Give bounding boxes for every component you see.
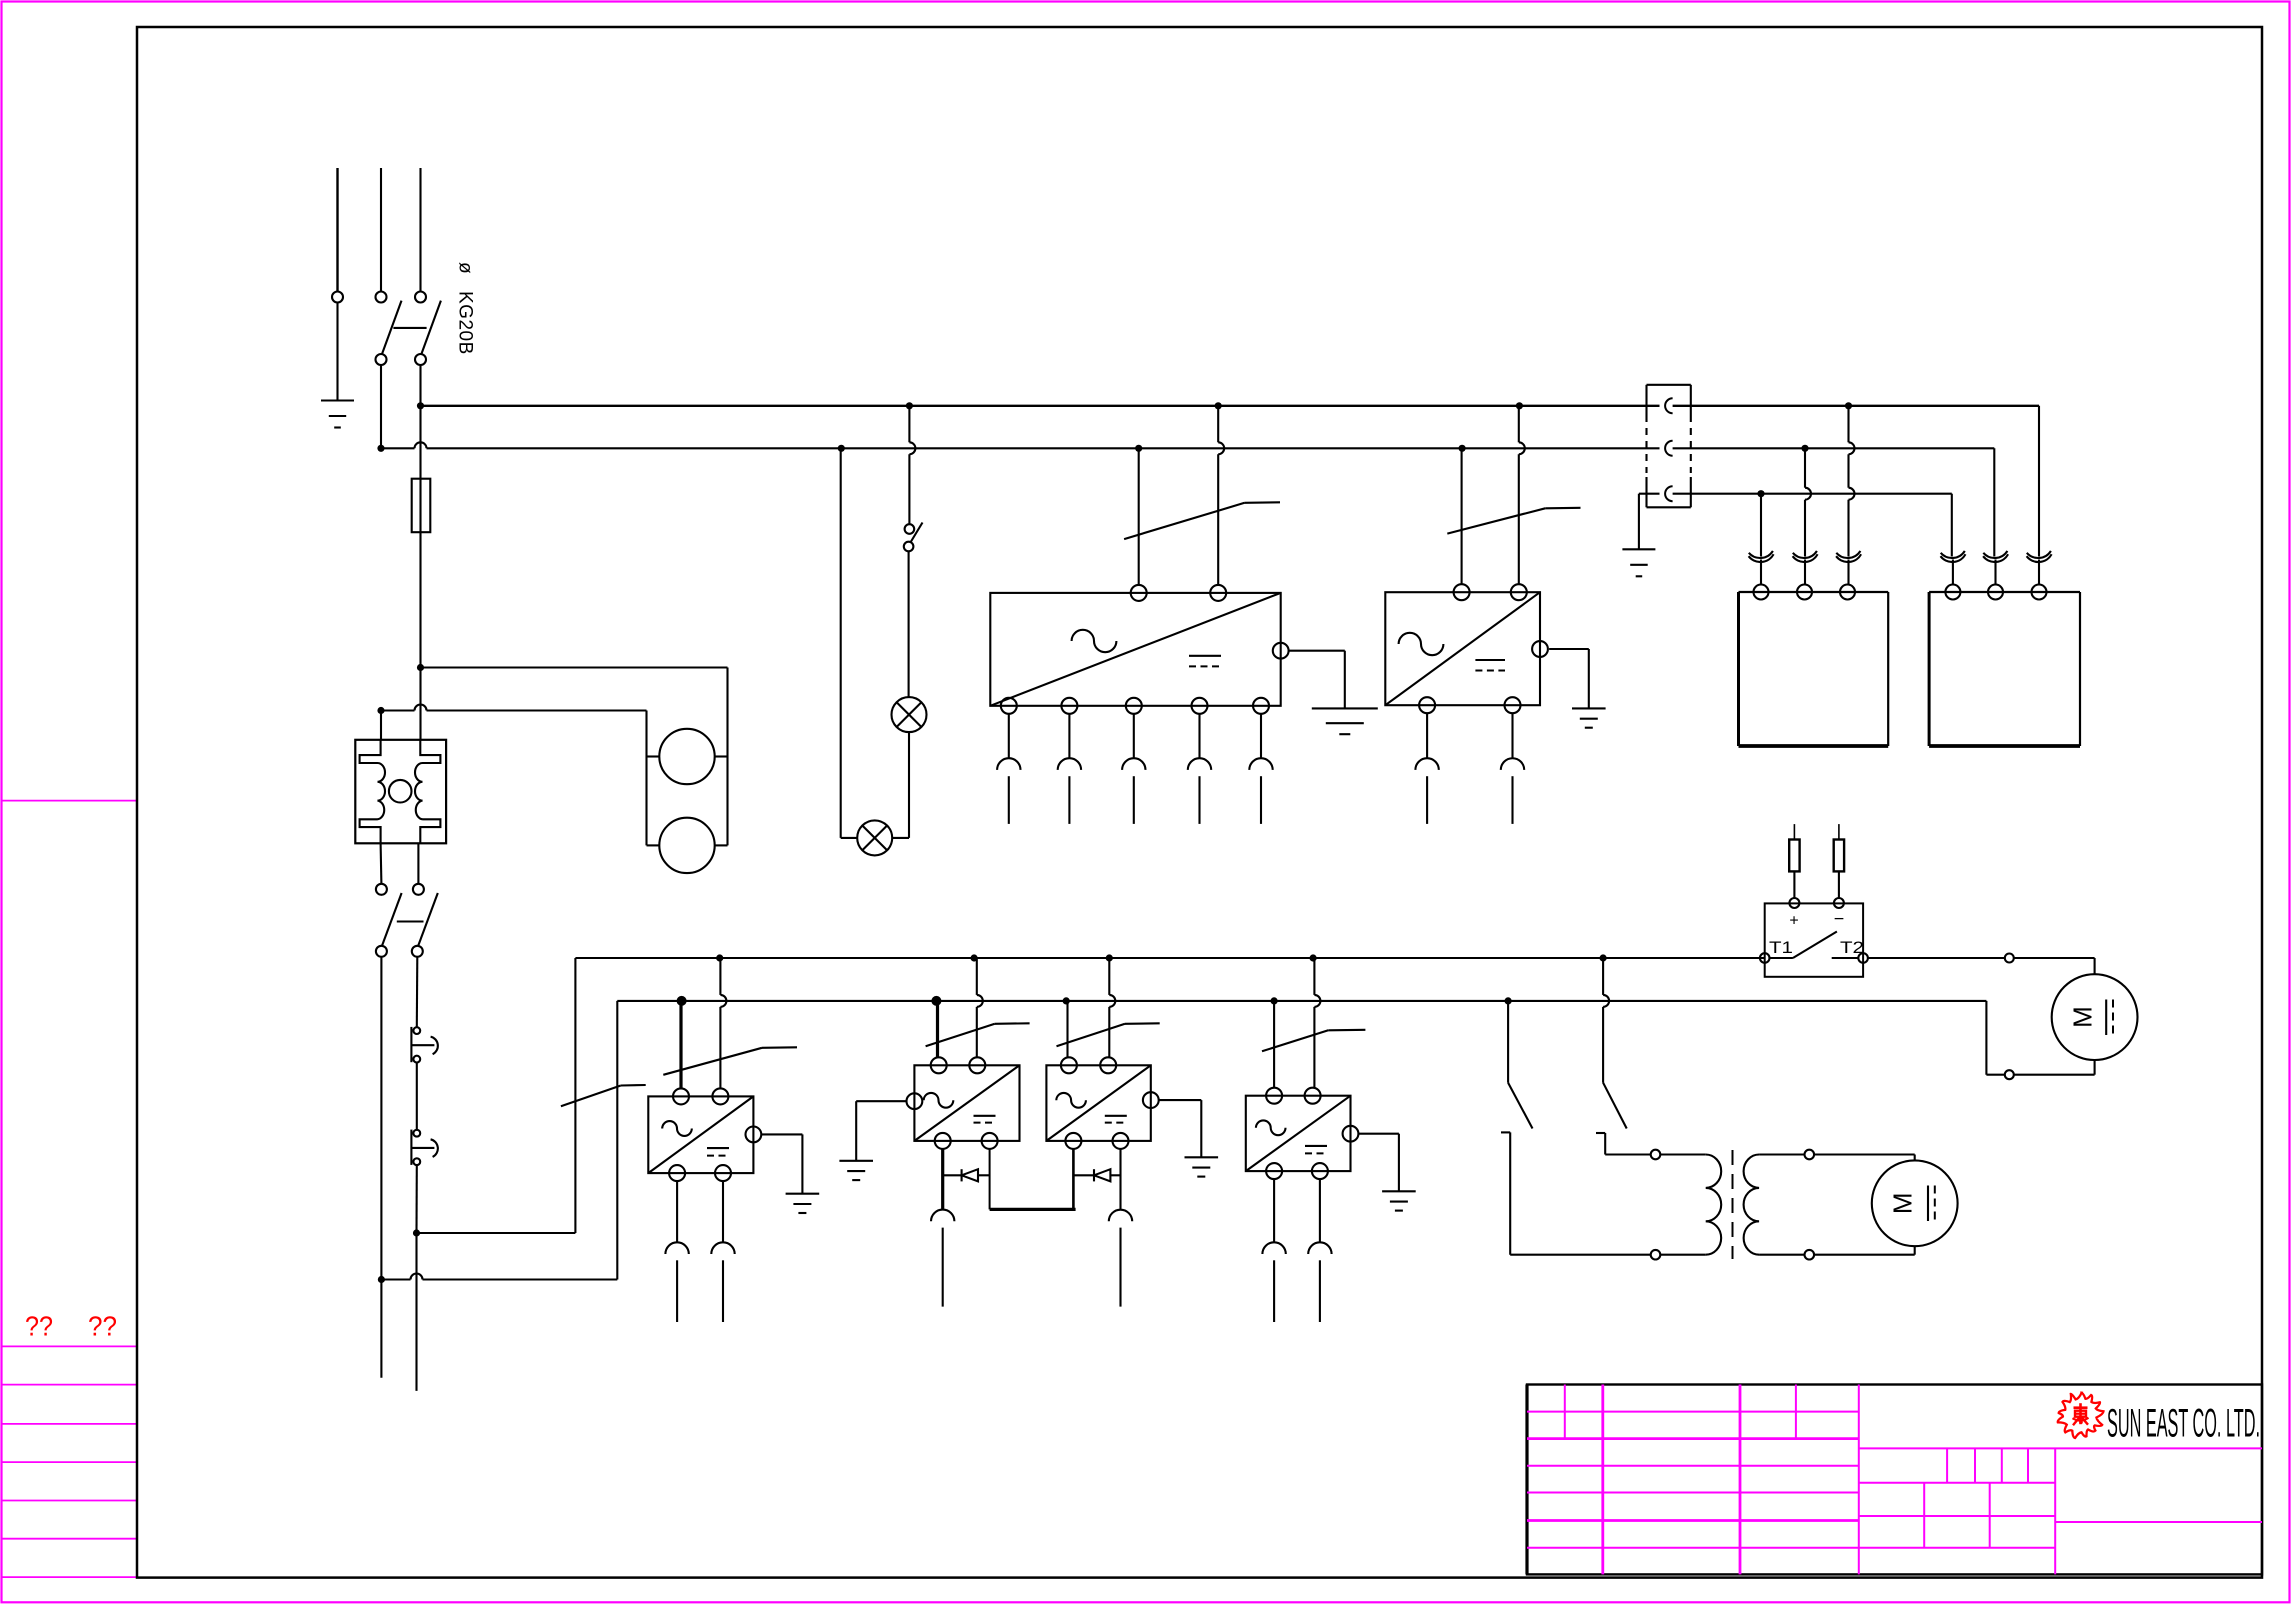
- svg-text:ø: ø: [455, 262, 476, 275]
- svg-text:M: M: [2068, 1006, 2098, 1028]
- svg-text:SUN EAST CO. LTD.: SUN EAST CO. LTD.: [2107, 1402, 2260, 1446]
- svg-text:+: +: [1789, 913, 1798, 930]
- svg-text:??: ??: [25, 1311, 53, 1342]
- svg-text:T1: T1: [1769, 938, 1793, 957]
- svg-text:KG20B: KG20B: [455, 291, 476, 355]
- svg-text:−: −: [1834, 909, 1845, 929]
- svg-text:M: M: [1888, 1192, 1918, 1214]
- svg-text:??: ??: [88, 1311, 117, 1342]
